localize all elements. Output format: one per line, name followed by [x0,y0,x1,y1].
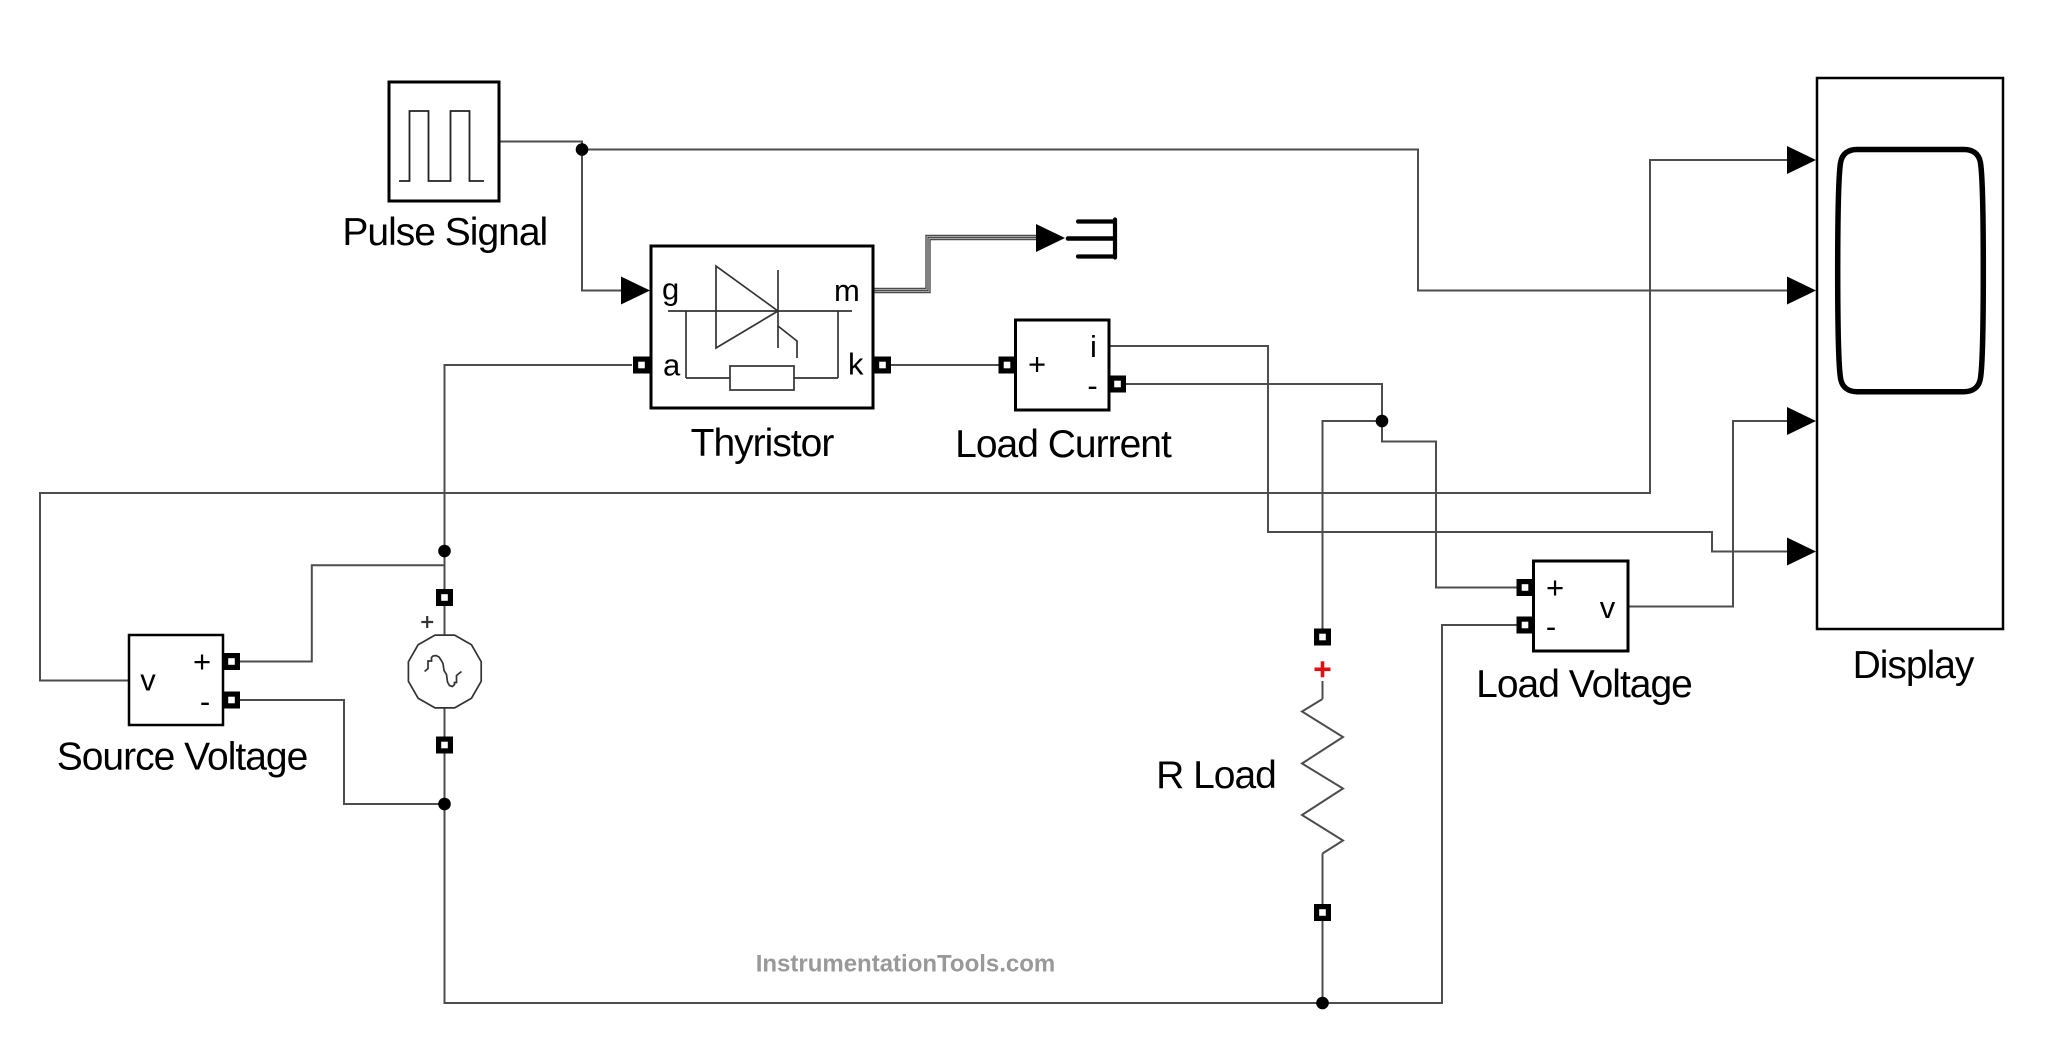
node B junction AC bottom [438,798,451,811]
snubber left drop [685,311,687,378]
svg-text:g: g [662,272,679,307]
wire load voltage v output to display input 3 [1628,421,1789,607]
terminator [1068,220,1115,258]
wire source voltage minus to node B [240,700,445,804]
block Load Voltage [1534,561,1629,651]
resistor lead top [1322,681,1324,699]
svg-text:Display: Display [1853,644,1975,687]
svg-text:a: a [663,348,681,383]
arrowhead display input 3 [1787,407,1816,435]
arrowhead display input 4 [1787,538,1816,566]
AC voltage source V1 [408,635,481,708]
svg-text:v: v [140,663,156,698]
wire pulse junction to display input 2 [582,150,1789,291]
svg-text:m: m [834,273,860,308]
wire AC source top pad to circle [444,606,446,635]
port AC source top [436,589,453,606]
svg-text:k: k [848,347,864,382]
node A junction anode wire [438,545,451,558]
block Load Current [1016,320,1110,410]
svg-text:R Load: R Load [1156,754,1276,797]
AC source polarity plus mark [421,616,433,628]
arrowhead terminator input [1036,224,1065,252]
wire thyristor m output vector triple line [874,236,1036,293]
port R load top [1314,629,1331,646]
arrowhead display input 2 [1787,277,1816,305]
thyristor cathode bar [777,270,779,348]
thyristor triangle [716,266,778,348]
port source voltage minus [223,692,240,709]
wire pulse junction to thyristor gate [582,150,622,291]
scope screen [1838,150,1984,392]
resistor lead bottom [1322,854,1324,905]
block Thyristor U1 [651,246,873,408]
svg-text:i: i [1090,329,1097,364]
svg-text:+: + [1028,347,1046,382]
wire pulse signal output [499,142,582,150]
block Pulse Signal [389,82,499,201]
wire thyristor cathode to load current plus [891,364,999,366]
port load voltage plus [1517,579,1534,596]
svg-text:Load Voltage: Load Voltage [1476,663,1692,706]
block Display scope [1817,78,2003,629]
port load current minus [1109,376,1126,393]
svg-text:v: v [1600,590,1616,625]
wire node C to load voltage plus [1382,421,1517,588]
gate rail [668,310,852,312]
svg-text:-: - [200,684,210,719]
svg-text:+: + [193,644,211,679]
svg-text:-: - [1087,368,1097,403]
snubber bottom rail [686,377,730,379]
wire load current minus to node C [1126,384,1382,421]
block Source Voltage [129,635,223,725]
port AC source bottom [436,737,453,754]
node pulse junction [576,143,589,156]
arrowhead display input 1 [1787,146,1816,174]
svg-text:-: - [1546,609,1556,644]
resistor R Load [1302,629,1343,922]
snubber right drop [837,311,839,378]
wire node C to R load top [1323,421,1383,629]
node C junction load [1376,415,1389,428]
svg-text:Thyristor: Thyristor [691,422,835,465]
port thyristor k [874,357,891,374]
wire source voltage v output to display input 1 [40,160,1789,681]
thyristor gate lead [778,326,797,358]
wire thyristor anode to AC source top [445,365,633,589]
svg-text:+: + [1546,570,1564,605]
port source voltage plus [223,653,240,670]
arrowhead thyristor gate input [621,277,650,305]
port thyristor a [633,357,650,374]
snubber resistor [730,366,794,390]
resistor zigzag [1302,699,1343,854]
wire AC source circle to bottom pad [444,708,446,737]
svg-text:InstrumentationTools.com: InstrumentationTools.com [756,951,1056,978]
port load current plus [999,357,1016,374]
polarity plus mark red [1315,661,1331,677]
wire load current i output to display input 4 [1109,346,1789,552]
port load voltage minus [1517,617,1534,634]
port R load bottom [1314,904,1331,921]
wire AC source bottom to load voltage minus (bottom rail) [445,625,1517,1003]
wire source voltage plus to node A [240,551,445,662]
svg-text:Pulse Signal: Pulse Signal [342,211,547,254]
wire R load bottom to bottom rail [1322,921,1324,1003]
svg-text:Load Current: Load Current [955,423,1172,466]
node D junction bottom rail [1316,997,1329,1010]
svg-text:Source Voltage: Source Voltage [57,736,308,779]
